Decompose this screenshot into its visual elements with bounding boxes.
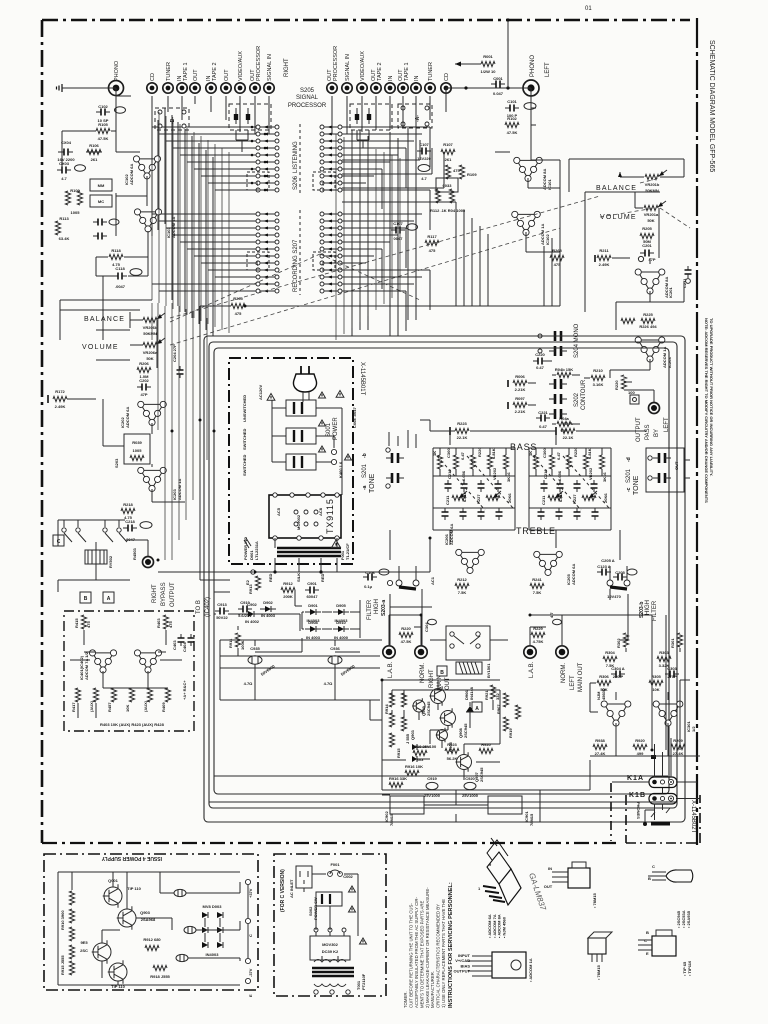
input jack PHONO (109, 81, 124, 96)
svg-text:C304: C304 (424, 622, 429, 632)
bus bottom long horizontals (209, 776, 676, 802)
svg-text:10K: 10K (125, 705, 130, 712)
svg-text:6.81K: 6.81K (462, 491, 467, 502)
svg-text:1) USE ONLY REPLACEMENT PARTS: 1) USE ONLY REPLACEMENT PARTS THAT HAVE … (441, 899, 446, 1008)
bus tone to filter (390, 530, 628, 646)
svg-text:78M15: 78M15 (389, 813, 394, 826)
svg-text:IC102: IC102 (545, 234, 550, 245)
wire matrix left bus verticals (152, 108, 229, 333)
psu diodes (202, 912, 208, 918)
svg-text:D902: D902 (263, 600, 273, 605)
potentiometer VR206b 50KMN (143, 317, 157, 322)
svg-text:C118: C118 (115, 266, 125, 271)
AC plug P001 (301, 366, 309, 374)
svg-text:R915: R915 (396, 748, 401, 758)
svg-text:BALANCE: BALANCE (596, 185, 637, 192)
svg-text:10K: 10K (652, 687, 659, 692)
svg-text:RIGHT: RIGHT (152, 584, 158, 603)
switch contact S207 row 12 (256, 289, 260, 293)
svg-text:ADCOM 1A: ADCOM 1A (662, 347, 667, 368)
svg-text:R04b 15K: R04b 15K (555, 367, 573, 372)
wire ic301 nets (590, 648, 680, 738)
svg-text:R265: R265 (552, 248, 562, 253)
svg-text:AC INLET: AC INLET (289, 879, 294, 898)
svg-text:RY502: RY502 (108, 555, 113, 568)
svg-text:220 P: 220 P (613, 674, 624, 679)
wire AC1 lead (337, 538, 430, 572)
bus poweramp rails (370, 700, 700, 790)
svg-text:R112 .1K R04 1005: R112 .1K R04 1005 (430, 208, 466, 213)
svg-text:0.47: 0.47 (539, 424, 548, 429)
switch contact S206 row 2 (256, 132, 260, 136)
svg-text:2SC945: 2SC945 (426, 701, 431, 716)
op-amp IC301 2/2 (653, 701, 683, 726)
svg-text:B: B (646, 930, 649, 935)
svg-text:47.5K: 47.5K (507, 130, 518, 135)
fuse K4601.6 (331, 449, 336, 454)
input jack IN TAPE 1 (177, 83, 187, 93)
power supply block border (44, 854, 258, 990)
svg-text:VR201a: VR201a (644, 212, 659, 217)
transistor Q002 2SC2625 (93, 943, 111, 961)
svg-text:R212: R212 (457, 577, 467, 582)
junction dots matrix (251, 126, 254, 129)
svg-text:C008 .0047: C008 .0047 (352, 407, 357, 428)
package 78M15 TO-220 top (365, 0, 367, 1)
svg-text:PASS: PASS (645, 424, 651, 440)
AC inlet (296, 866, 312, 888)
svg-text:47P: 47P (140, 392, 147, 397)
svg-text:S205: S205 (300, 88, 315, 94)
svg-text:R409: R409 (161, 702, 166, 712)
package ADCOM 1A front view (492, 952, 526, 978)
svg-text:C107: C107 (419, 142, 429, 147)
terminal E2 ground (251, 570, 255, 574)
input jack TUNER (425, 83, 435, 93)
svg-text:R910 3900: R910 3900 (60, 910, 65, 930)
svg-text:VR206a: VR206a (143, 350, 158, 355)
svg-text:475: 475 (235, 311, 242, 316)
wire phono-left riser along right (531, 160, 560, 192)
component box MM/MC (90, 179, 112, 191)
svg-text:MOV302: MOV302 (322, 942, 339, 947)
wire ic101 nets (446, 88, 560, 252)
relay coil RY502 (85, 550, 107, 564)
svg-text:ADCOM 7A 1/2: ADCOM 7A 1/2 (84, 651, 89, 680)
svg-text:D908: D908 (308, 620, 318, 625)
bus vertical wires from input jacks (152, 96, 213, 336)
svg-text:C913: C913 (217, 602, 227, 607)
bus horizontal wires matrix right (342, 127, 430, 331)
svg-text:C102: C102 (98, 104, 108, 109)
transistor Q001 TIP110 (104, 887, 122, 905)
bus horizontal wires matrix left (152, 127, 256, 291)
svg-text:56.2K: 56.2K (447, 756, 458, 761)
svg-text:VOLUME: VOLUME (82, 344, 119, 351)
svg-text:ADCOM 6A: ADCOM 6A (125, 407, 130, 428)
svg-text:6.81K: 6.81K (491, 448, 496, 459)
svg-text:-d: -d (626, 457, 632, 462)
svg-text:FILTER: FILTER (652, 600, 658, 621)
potentiometer VR201a 50K (644, 205, 658, 210)
wire rectifier nets (255, 590, 360, 652)
svg-text:R457: R457 (107, 702, 112, 712)
switch contact S206 row 1 (256, 125, 260, 129)
svg-text:(IC402): (IC402) (205, 597, 211, 617)
op-amp IC402 ADCOM 7A (134, 650, 161, 673)
svg-text:-b-: -b- (320, 260, 325, 266)
svg-text:C204 27P: C204 27P (172, 344, 177, 362)
psu wires (58, 872, 248, 985)
svg-text:K1B: K1B (629, 792, 646, 799)
capacitor C304 4u7 (428, 619, 437, 625)
switch contact S206 row 9 (256, 181, 260, 185)
svg-text:2.21K: 2.21K (515, 409, 526, 414)
svg-text:-c-: -c- (254, 180, 259, 186)
wire ic102 net (86, 131, 147, 236)
svg-text:• NJM 4560: • NJM 4560 (501, 916, 506, 938)
switch S001 section SWITCHED (286, 454, 316, 470)
svg-text:FILTER: FILTER (367, 599, 373, 620)
svg-text:S202: S202 (574, 392, 580, 407)
wire long risers right side (456, 202, 488, 306)
svg-text:S201: S201 (626, 468, 632, 483)
svg-text:TAPE 1: TAPE 1 (404, 62, 410, 81)
dashed link balance pots (170, 178, 660, 318)
svg-text:50KMN: 50KMN (143, 331, 157, 336)
dashed boxes matrix center (247, 172, 269, 190)
svg-text:C: C (57, 539, 61, 545)
svg-text:VR202: VR202 (492, 467, 497, 480)
svg-text:3K16: 3K16 (602, 472, 607, 482)
svg-text:ADCOM 1A: ADCOM 1A (171, 217, 176, 238)
wire S205 box drops (236, 130, 369, 152)
svg-text:SCHEMATIC DIAGRAM MODEL GFP-56: SCHEMATIC DIAGRAM MODEL GFP-565 (708, 40, 715, 172)
svg-text:B: B (440, 670, 444, 676)
wire volume loop (585, 192, 660, 312)
transistor Q003 2SA968 (118, 909, 136, 927)
svg-text:PROCESSOR: PROCESSOR (288, 103, 327, 109)
switch contact S206 row 7 (256, 167, 260, 171)
svg-text:C218: C218 (125, 519, 135, 524)
c version wires (304, 874, 358, 960)
svg-text:27.4K: 27.4K (595, 751, 606, 756)
svg-text:CONTOUR: CONTOUR (581, 379, 587, 410)
svg-text:270P: 270P (667, 674, 677, 679)
svg-text:C123 A: C123 A (597, 564, 611, 569)
switch contact S207 row 3 (256, 226, 260, 230)
resistor row R417 R457 R409 (75, 688, 80, 702)
svg-text:BALANCE: BALANCE (84, 316, 125, 323)
svg-text:UNSWITCHED: UNSWITCHED (242, 395, 247, 422)
svg-text:2) MAKE LEAKAGE-CURRENT OR RES: 2) MAKE LEAKAGE-CURRENT OR RESISTANCE ME… (425, 887, 430, 1008)
svg-text:OUT: OUT (544, 884, 553, 889)
svg-text:VOLUME: VOLUME (600, 214, 637, 221)
box A (103, 592, 114, 603)
label boxed A (472, 702, 482, 712)
svg-text:TOMER.: TOMER. (403, 991, 408, 1008)
svg-text:R206: R206 (139, 361, 149, 366)
svg-text:ADCOM 6A: ADCOM 6A (129, 164, 134, 185)
svg-text:PT2110F: PT2110F (361, 973, 366, 990)
svg-text:R223: R223 (457, 421, 467, 426)
svg-text:PHONES: PHONES (636, 802, 641, 819)
svg-text:IN 4003: IN 4003 (306, 635, 321, 640)
svg-text:J 555: J 555 (405, 733, 410, 744)
wire ic401 nets (70, 630, 182, 718)
border left dash-dot (41, 20, 44, 843)
svg-text:IN: IN (414, 75, 420, 81)
border bottom dash-dot (42, 842, 616, 844)
svg-text:C935: C935 (250, 646, 260, 651)
wire center mid nets (214, 614, 380, 668)
op-amp IC203 ADCOM 1A (635, 337, 665, 362)
relay contacts signal processor left (350, 104, 392, 130)
svg-text:200K: 200K (283, 594, 293, 599)
svg-text:20K6: 20K6 (603, 493, 608, 503)
C version block border (274, 854, 386, 996)
svg-text:S001: S001 (326, 422, 332, 437)
package TO-92 2SC945 (666, 870, 693, 882)
input jack IN TAPE 2 (206, 83, 216, 93)
svg-text:NORM.: NORM. (561, 663, 567, 683)
wire tone bus (430, 431, 620, 445)
svg-text:R097: R097 (515, 396, 525, 401)
svg-text:1/2: 1/2 (691, 726, 696, 732)
svg-text:R220: R220 (401, 626, 411, 631)
svg-text:BASS: BASS (510, 442, 537, 452)
svg-text:S203-a: S203-a (381, 600, 387, 616)
wire transformer secondary leads (253, 538, 430, 572)
svg-text:C303: C303 (667, 666, 677, 671)
svg-text:MC: MC (98, 199, 104, 204)
wire cd-to-phono-left row (446, 87, 531, 89)
label boxed B (437, 666, 447, 676)
svg-text:R218: R218 (123, 502, 133, 507)
switch contact S206 row 5 (256, 153, 260, 157)
resistor column power amp R9xx (389, 693, 394, 707)
svg-text:• 2SA935: • 2SA935 (686, 910, 691, 928)
switch contact S207 row 1 (256, 212, 260, 216)
svg-text:C106: C106 (365, 570, 375, 575)
op-amp IC201 ADCOM 8A (635, 269, 665, 294)
op-amp IC103 ADCOM 1A right (134, 209, 161, 232)
psu output terminals (245, 879, 250, 884)
svg-text:TUNER: TUNER (428, 62, 434, 81)
svg-text:C205: C205 (615, 570, 625, 575)
svg-text:TONE: TONE (633, 475, 640, 495)
input jack OUT PROCESSOR (327, 83, 337, 93)
svg-text:OUTPUT: OUTPUT (636, 417, 642, 442)
bus right verticals from matrix to tone (352, 128, 416, 336)
svg-text:R916 10K: R916 10K (405, 764, 423, 769)
svg-text:2.21K: 2.21K (515, 387, 526, 392)
svg-text:C936: C936 (330, 646, 340, 651)
svg-text:HIGH: HIGH (374, 599, 380, 614)
svg-text:4.7Ω: 4.7Ω (244, 681, 254, 686)
switch contact S207 row 2 (256, 219, 260, 223)
op-amp IC203L ADCOM 1A (138, 467, 167, 491)
wire bypass right nets (58, 520, 148, 592)
svg-text:60047: 60047 (306, 594, 318, 599)
wires power amp internal (382, 690, 500, 762)
svg-text:SWITCHED: SWITCHED (242, 455, 247, 476)
svg-text:475: 475 (429, 248, 436, 253)
svg-text:R403 10K (AUX) R423 (AUX): R403 10K (AUX) R423 (AUX) R428 (100, 722, 165, 727)
svg-text:R911: R911 (228, 638, 233, 648)
jack LEFT BYPASS OUTPUT (649, 403, 660, 414)
input jack OUT PROCESSOR (250, 83, 260, 93)
svg-text:OUT: OUT (224, 69, 230, 81)
wire K1A feeds (612, 738, 697, 782)
svg-text:R303: R303 (659, 650, 669, 655)
svg-text:R912 680: R912 680 (143, 937, 161, 942)
potentiometer VR206a 50K (143, 342, 157, 347)
svg-text:ADCOM 8A: ADCOM 8A (664, 277, 669, 298)
switch S001 section SWITCHED (286, 428, 316, 444)
svg-text:47.5K: 47.5K (401, 639, 412, 644)
jack LEFT MAIN OUT NORM (556, 646, 568, 658)
svg-text:25V1000: 25V1000 (462, 793, 479, 798)
svg-text:1005: 1005 (71, 210, 81, 215)
svg-text:R923: R923 (447, 742, 457, 747)
switch contact S207 row 10 (256, 275, 260, 279)
box B (80, 592, 91, 603)
capacitor cluster C106 C108 (93, 221, 98, 223)
svg-text:0.47: 0.47 (556, 451, 561, 460)
svg-text:27.4K: 27.4K (673, 751, 684, 756)
svg-text:(AUX): (AUX) (143, 700, 148, 712)
svg-text:R225: R225 (643, 312, 653, 317)
svg-text:C210: C210 (447, 469, 452, 479)
svg-text:E2: E2 (245, 579, 250, 585)
wire K1 left dash-dot drop (610, 783, 612, 841)
relay coil BY1501 (456, 662, 482, 674)
svg-text:R211: R211 (599, 248, 609, 253)
svg-text:OUT: OUT (193, 69, 199, 81)
svg-text:TAPE 2: TAPE 2 (212, 62, 218, 81)
switch contact S207 row 4 (256, 233, 260, 237)
svg-text:+A+ R&C+: +A+ R&C+ (182, 680, 187, 700)
svg-text:B: B (648, 876, 651, 881)
svg-text:R221: R221 (563, 421, 573, 426)
svg-text:NOTE: ADCOM RESERVES THE RIGHT: NOTE: ADCOM RESERVES THE RIGHT TO MODIFY… (704, 318, 709, 503)
regulator IC902 78M15 (390, 796, 424, 814)
svg-text:47.5K: 47.5K (98, 136, 109, 141)
svg-text:C210: C210 (543, 469, 548, 479)
jack LEFT MAIN OUT LAB (524, 646, 536, 658)
svg-text:R117: R117 (427, 234, 437, 239)
svg-text:OUTPUT: OUTPUT (454, 969, 471, 974)
svg-text:• ADCOM 1A: • ADCOM 1A (528, 958, 533, 982)
svg-text:Q903: Q903 (140, 910, 151, 915)
SIP module ADCOM package (499, 869, 521, 905)
svg-text:VR201b: VR201b (645, 182, 660, 187)
svg-text:(AUX): (AUX) (89, 700, 94, 712)
svg-text:4.7: 4.7 (421, 176, 427, 181)
jack RIGHT MAIN OUT LAB (383, 646, 395, 658)
svg-text:C920: C920 (465, 776, 475, 781)
svg-text:D905: D905 (336, 603, 346, 608)
svg-text:OUT: OUT (445, 677, 451, 690)
wire lower power rails (380, 790, 540, 822)
svg-text:CD: CD (150, 73, 156, 81)
svg-text:C: C (248, 934, 253, 937)
switch contact S206 row 8 (256, 174, 260, 178)
input jack VIDEO/AUX (357, 83, 367, 93)
tone network right channel (437, 455, 442, 469)
svg-text:RED: RED (268, 573, 273, 582)
svg-text:IN: IN (388, 75, 394, 81)
transformer pins (273, 493, 277, 497)
svg-text:2SC: 2SC (80, 948, 88, 953)
input jack CD (147, 83, 157, 93)
svg-text:MENTS TO DETERMINE THAT EXPOSE: MENTS TO DETERMINE THAT EXPOSED PARTS AR… (419, 901, 424, 1008)
shield box outer (204, 336, 685, 822)
wire phono left down (531, 88, 536, 160)
wire bypass net (584, 359, 654, 402)
svg-text:4.7: 4.7 (61, 176, 67, 181)
svg-text:-a: -a (362, 485, 368, 490)
switch contact S207 row 8 (256, 261, 260, 265)
svg-text:+37V: +37V (248, 888, 253, 898)
wire long bus to balance (200, 305, 560, 307)
wire balance loop (569, 159, 684, 192)
op-amp IC205 ADCOM 6A treble left (534, 551, 563, 575)
svg-text:R918 J555: R918 J555 (150, 974, 170, 979)
relay contact K1A-1 (446, 626, 490, 660)
transistor Q909 2SC945 (431, 689, 446, 704)
svg-text:CX03: CX03 (59, 161, 70, 166)
network RC cluster below IC202 (124, 434, 150, 464)
tone network left channel (533, 455, 538, 469)
diode pair D903 D904 (412, 744, 417, 750)
svg-text:IN 4002: IN 4002 (245, 619, 260, 624)
resistor column left psu (69, 891, 74, 905)
input jack CD (441, 83, 451, 93)
package TIP110 TO-220 (652, 936, 676, 956)
input jack SIGNAL IN (264, 83, 274, 93)
wire phono input net (58, 88, 131, 170)
svg-text:R920: R920 (481, 742, 491, 747)
switch frame dashes (299, 124, 301, 295)
switch contact S206 row 3 (256, 139, 260, 143)
svg-text:1/2W 10: 1/2W 10 (481, 69, 497, 74)
svg-text:4.7Ω: 4.7Ω (324, 681, 334, 686)
svg-text:-37V: -37V (248, 968, 253, 977)
svg-text:R106: R106 (89, 143, 99, 148)
op-amp IC401 ADCOM 7A (89, 650, 116, 673)
transistor Q903 2SA808 left (413, 700, 425, 712)
svg-text:Q903: Q903 (410, 729, 415, 740)
svg-text:C221: C221 (538, 410, 548, 415)
svg-text:R172: R172 (55, 389, 65, 394)
svg-text:C403: C403 (172, 640, 177, 650)
bus horizontal mid-level (158, 306, 430, 700)
transistor Q907 2SC945 (457, 755, 472, 770)
svg-text:AC8: AC8 (318, 507, 323, 516)
relay K1B contacts (649, 794, 677, 805)
svg-text:R403: R403 (156, 618, 161, 628)
svg-text:TONE: TONE (369, 473, 376, 493)
svg-text:R907: R907 (496, 704, 501, 714)
wire matrix outputs right to preamp (342, 140, 456, 202)
wire poweramp nets (424, 680, 493, 805)
block IC401 IC402 border (64, 611, 194, 731)
svg-text:C205 A: C205 A (601, 558, 615, 563)
svg-text:R4503: R4503 (132, 547, 137, 560)
svg-text:C300: C300 (446, 448, 451, 458)
